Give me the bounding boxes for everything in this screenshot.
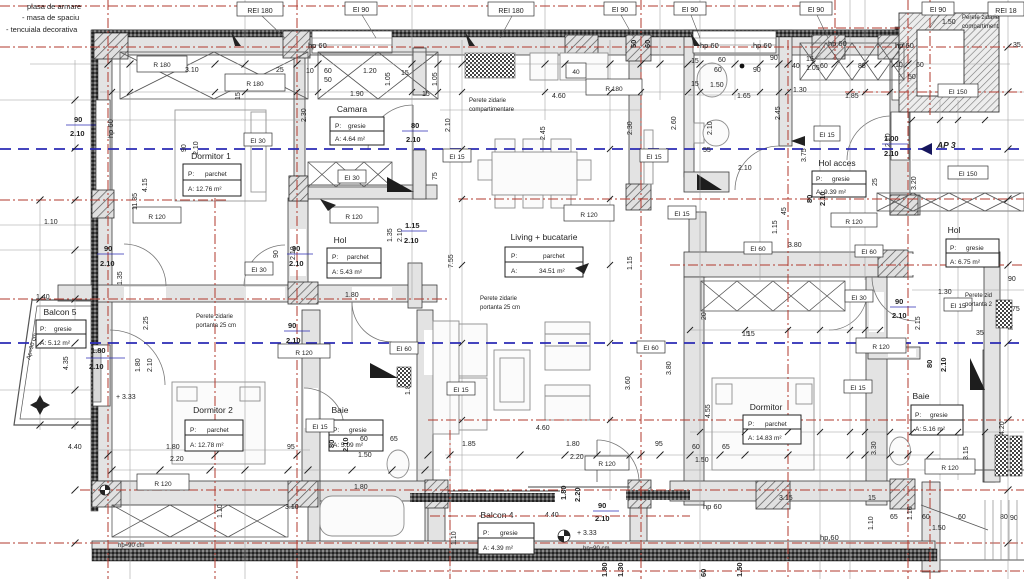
svg-text:50: 50: [324, 77, 332, 84]
svg-text:+ 3.33: + 3.33: [116, 394, 136, 401]
svg-text:60: 60: [714, 67, 722, 74]
svg-text:2.10: 2.10: [818, 191, 827, 206]
svg-text:65: 65: [390, 436, 398, 443]
svg-text:1.80: 1.80: [566, 441, 580, 448]
svg-text:REI 180: REI 180: [498, 8, 523, 15]
svg-text:90: 90: [770, 55, 778, 62]
svg-text:A: 6.75 m²: A: 6.75 m²: [950, 259, 981, 266]
svg-text:3.15: 3.15: [963, 446, 970, 460]
svg-text:2.60: 2.60: [671, 116, 678, 130]
svg-text:1.15: 1.15: [627, 256, 634, 270]
svg-text:65: 65: [890, 514, 898, 521]
svg-text:4.15: 4.15: [142, 178, 149, 192]
svg-text:parchet: parchet: [765, 421, 787, 428]
svg-text:90: 90: [273, 250, 280, 258]
svg-text:R 120: R 120: [872, 344, 890, 351]
svg-text:3.10: 3.10: [285, 504, 299, 511]
svg-text:50: 50: [629, 40, 638, 48]
svg-text:2.30: 2.30: [627, 121, 634, 135]
svg-text:parchet: parchet: [347, 254, 369, 261]
svg-text:P:: P:: [816, 176, 822, 183]
svg-text:EI 15: EI 15: [819, 132, 835, 139]
svg-text:3.80: 3.80: [788, 242, 802, 249]
svg-text:90: 90: [288, 321, 296, 330]
svg-text:90: 90: [1008, 276, 1016, 283]
svg-text:A:: A:: [511, 268, 517, 275]
svg-text:hp 60: hp 60: [106, 119, 115, 138]
svg-text:1.15: 1.15: [772, 220, 779, 234]
svg-text:hp=90 cm: hp=90 cm: [118, 543, 145, 549]
svg-text:EI 90: EI 90: [612, 7, 628, 14]
svg-text:compartimentare: compartimentare: [469, 107, 515, 113]
svg-text:1.35: 1.35: [117, 271, 124, 285]
svg-text:95: 95: [287, 444, 295, 451]
svg-text:4.60: 4.60: [552, 93, 566, 100]
svg-text:2.30: 2.30: [301, 108, 308, 122]
svg-text:4.60: 4.60: [536, 425, 550, 432]
svg-text:EI 15: EI 15: [312, 424, 328, 431]
svg-text:2.25: 2.25: [143, 316, 150, 330]
svg-text:REI 180: REI 180: [247, 8, 272, 15]
svg-text:- masa de spaciu: - masa de spaciu: [22, 13, 79, 22]
svg-text:90: 90: [598, 501, 606, 510]
svg-text:Camara: Camara: [337, 104, 368, 114]
svg-text:2.10: 2.10: [89, 362, 104, 371]
svg-text:1.30: 1.30: [793, 87, 807, 94]
svg-text:90: 90: [292, 244, 300, 253]
svg-text:parchet: parchet: [207, 427, 229, 434]
svg-text:R 120: R 120: [598, 461, 616, 468]
svg-text:20: 20: [701, 312, 708, 320]
svg-text:hp,60: hp,60: [820, 533, 839, 542]
svg-text:R 120: R 120: [941, 465, 959, 472]
svg-text:hp 60: hp 60: [753, 41, 772, 50]
svg-text:Dormitor 2: Dormitor 2: [193, 405, 233, 415]
svg-text:2.45: 2.45: [540, 126, 547, 140]
svg-text:P:: P:: [332, 254, 338, 261]
svg-text:3.80: 3.80: [666, 361, 673, 375]
svg-text:1.80: 1.80: [600, 562, 609, 577]
svg-text:1.90: 1.90: [350, 91, 364, 98]
svg-text:gresie: gresie: [54, 326, 72, 333]
svg-text:4.55: 4.55: [705, 404, 712, 418]
svg-text:2.10: 2.10: [406, 135, 421, 144]
svg-text:Hol: Hol: [334, 235, 347, 245]
svg-text:EI 60: EI 60: [643, 345, 659, 352]
svg-text:2.10: 2.10: [707, 121, 714, 135]
svg-text:parchet: parchet: [205, 171, 227, 178]
svg-text:3.60: 3.60: [625, 376, 632, 390]
svg-text:90: 90: [895, 297, 903, 306]
svg-text:1.05: 1.05: [385, 72, 392, 86]
svg-text:EI 60: EI 60: [750, 246, 766, 253]
svg-text:1.50: 1.50: [735, 562, 744, 577]
svg-text:compartiment: compartiment: [962, 24, 999, 30]
svg-text:1.30: 1.30: [938, 289, 952, 296]
svg-text:EI 15: EI 15: [449, 154, 465, 161]
svg-text:EI 60: EI 60: [396, 346, 412, 353]
svg-text:50: 50: [908, 74, 916, 81]
svg-text:95: 95: [655, 441, 663, 448]
svg-text:2.10: 2.10: [595, 514, 610, 523]
svg-text:1.40: 1.40: [36, 294, 50, 301]
svg-text:EI 90: EI 90: [930, 7, 946, 14]
svg-text:EI 30: EI 30: [251, 267, 267, 274]
svg-text:1.10: 1.10: [868, 516, 875, 530]
svg-text:gresie: gresie: [832, 176, 850, 183]
svg-text:plasa de armare: plasa de armare: [27, 2, 81, 11]
svg-text:40: 40: [792, 63, 800, 70]
svg-text:3.75: 3.75: [801, 148, 808, 162]
svg-text:gresie: gresie: [349, 427, 367, 434]
svg-text:75: 75: [1012, 306, 1020, 313]
svg-text:EI 90: EI 90: [353, 7, 369, 14]
svg-text:P:: P:: [40, 326, 46, 333]
svg-text:EI 90: EI 90: [808, 7, 824, 14]
svg-text:portanta 2: portanta 2: [965, 302, 993, 308]
svg-text:15: 15: [235, 92, 242, 100]
svg-text:4.35: 4.35: [63, 356, 70, 370]
svg-text:hp=90 cm: hp=90 cm: [583, 546, 610, 552]
svg-text:EI 90: EI 90: [682, 7, 698, 14]
svg-text:60: 60: [916, 62, 924, 69]
svg-text:P:: P:: [335, 123, 341, 130]
svg-text:1.50: 1.50: [932, 525, 946, 532]
svg-text:2.10: 2.10: [892, 311, 907, 320]
svg-text:REI 18: REI 18: [995, 8, 1017, 15]
svg-text:2.10: 2.10: [884, 149, 899, 158]
svg-text:Living + bucatarie: Living + bucatarie: [511, 232, 578, 242]
svg-text:R 180: R 180: [153, 62, 171, 69]
svg-text:2.10: 2.10: [397, 228, 404, 242]
svg-text:hp 60: hp 60: [308, 41, 327, 50]
svg-text:60: 60: [360, 436, 368, 443]
svg-text:1.00: 1.00: [884, 134, 899, 143]
svg-text:15: 15: [422, 91, 430, 98]
svg-text:80: 80: [411, 121, 419, 130]
svg-text:Perete zid: Perete zid: [965, 293, 992, 299]
svg-text:15: 15: [401, 70, 409, 77]
svg-text:1.35: 1.35: [387, 228, 394, 242]
svg-text:P:: P:: [915, 412, 921, 419]
svg-text:15: 15: [691, 58, 699, 65]
svg-text:2.45: 2.45: [775, 106, 782, 120]
svg-text:P:: P:: [188, 171, 194, 178]
svg-text:1.85: 1.85: [845, 93, 859, 100]
svg-text:60: 60: [692, 444, 700, 451]
svg-text:1.65: 1.65: [737, 93, 751, 100]
svg-text:EI 15: EI 15: [646, 154, 662, 161]
svg-text:+ 3.33: + 3.33: [577, 530, 597, 537]
svg-text:Hol: Hol: [948, 225, 961, 235]
svg-text:1.10: 1.10: [217, 504, 224, 518]
svg-text:Perete zidarie: Perete zidarie: [480, 296, 518, 302]
svg-text:1.50: 1.50: [358, 452, 372, 459]
svg-text:2.10: 2.10: [289, 259, 304, 268]
svg-text:80: 80: [327, 440, 336, 448]
svg-text:1.80: 1.80: [345, 292, 359, 299]
svg-text:A: 4.39 m²: A: 4.39 m²: [483, 545, 514, 552]
svg-text:Perete zidarie: Perete zidarie: [196, 314, 234, 320]
svg-text:90: 90: [753, 67, 761, 74]
svg-text:60: 60: [324, 68, 332, 75]
svg-text:1.05: 1.05: [806, 65, 820, 72]
svg-text:35: 35: [976, 330, 984, 337]
svg-text:R 180: R 180: [605, 86, 623, 93]
svg-text:AP 3: AP 3: [936, 140, 956, 150]
svg-text:45: 45: [781, 207, 788, 215]
svg-text:1.50: 1.50: [710, 82, 724, 89]
svg-text:35: 35: [1013, 42, 1021, 49]
svg-text:EI 15: EI 15: [453, 387, 469, 394]
svg-text:hp 60: hp 60: [703, 502, 722, 511]
svg-text:1.10: 1.10: [44, 219, 58, 226]
svg-text:1.10: 1.10: [451, 531, 458, 545]
svg-text:EI 30: EI 30: [851, 295, 867, 302]
svg-text:2.20: 2.20: [570, 454, 584, 461]
svg-text:1.05: 1.05: [432, 72, 439, 86]
svg-text:2.10: 2.10: [147, 358, 154, 372]
svg-text:R 120: R 120: [580, 212, 598, 219]
svg-text:R 120: R 120: [345, 214, 363, 221]
svg-text:2.15: 2.15: [915, 316, 922, 330]
svg-text:EI 60: EI 60: [861, 249, 877, 256]
svg-text:1.80: 1.80: [91, 346, 106, 355]
svg-text:60: 60: [718, 57, 726, 64]
svg-text:A: 5.43 m²: A: 5.43 m²: [332, 269, 363, 276]
svg-text:1.50: 1.50: [695, 457, 709, 464]
svg-text:Baie: Baie: [912, 391, 929, 401]
svg-text:EI 15: EI 15: [674, 211, 690, 218]
svg-text:11.35: 11.35: [132, 193, 139, 210]
svg-text:EI 150: EI 150: [959, 171, 978, 178]
svg-text:gresie: gresie: [348, 123, 366, 130]
svg-text:10: 10: [306, 68, 314, 75]
svg-text:90: 90: [104, 244, 112, 253]
svg-text:R 120: R 120: [148, 214, 166, 221]
svg-text:90: 90: [181, 144, 188, 152]
svg-text:1.80: 1.80: [166, 444, 180, 451]
svg-text:90: 90: [74, 115, 82, 124]
svg-text:A: 4.64 m²: A: 4.64 m²: [335, 136, 366, 143]
svg-text:Baie: Baie: [331, 405, 348, 415]
svg-text:2.10: 2.10: [445, 118, 452, 132]
svg-text:P:: P:: [511, 253, 517, 260]
svg-text:hp 60: hp 60: [895, 41, 914, 50]
svg-text:1.10: 1.10: [907, 506, 914, 520]
svg-text:hp 60: hp 60: [700, 41, 719, 50]
svg-text:EI 15: EI 15: [850, 385, 866, 392]
svg-text:2.20: 2.20: [170, 456, 184, 463]
svg-text:60: 60: [820, 63, 828, 70]
svg-text:Balcon 5: Balcon 5: [43, 307, 76, 317]
svg-text:Hol acces: Hol acces: [818, 158, 855, 168]
svg-text:1.20: 1.20: [363, 68, 377, 75]
svg-text:75: 75: [432, 172, 439, 180]
svg-text:1.80: 1.80: [135, 358, 142, 372]
svg-text:25: 25: [872, 178, 879, 186]
svg-text:25: 25: [276, 67, 284, 74]
svg-text:4.40: 4.40: [68, 444, 82, 451]
svg-text:P:: P:: [748, 421, 754, 428]
svg-text:15: 15: [691, 81, 699, 88]
svg-text:R 120: R 120: [295, 350, 313, 357]
svg-text:1.15: 1.15: [405, 221, 420, 230]
svg-text:2.10: 2.10: [193, 141, 200, 155]
svg-text:Perete zidarie: Perete zidarie: [962, 15, 1000, 21]
svg-text:A: 12.78 m²: A: 12.78 m²: [190, 442, 224, 449]
svg-text:A: 14.83 m²: A: 14.83 m²: [748, 435, 782, 442]
svg-text:15: 15: [868, 495, 876, 502]
svg-text:1.80: 1.80: [354, 484, 368, 491]
svg-text:A: 5.16 m²: A: 5.16 m²: [915, 426, 946, 433]
svg-text:3.15: 3.15: [779, 495, 793, 502]
svg-text:1.50: 1.50: [942, 19, 956, 26]
svg-text:80: 80: [925, 360, 934, 368]
svg-text:hp 60: hp 60: [828, 39, 847, 48]
svg-text:- tencuiala decorativa: - tencuiala decorativa: [6, 25, 78, 34]
svg-text:7.55: 7.55: [448, 254, 455, 268]
svg-text:60: 60: [699, 569, 708, 577]
svg-text:1.30: 1.30: [616, 562, 625, 577]
svg-text:2.10: 2.10: [738, 165, 752, 172]
svg-text:P:: P:: [950, 245, 956, 252]
svg-text:EI 150: EI 150: [949, 89, 968, 96]
svg-text:3.30: 3.30: [871, 441, 878, 455]
svg-text:60: 60: [643, 40, 652, 48]
svg-text:2.20: 2.20: [573, 487, 582, 502]
svg-text:EI 30: EI 30: [250, 138, 266, 145]
svg-text:60: 60: [922, 514, 930, 521]
svg-text:parchet: parchet: [543, 253, 565, 260]
svg-text:3.10: 3.10: [185, 67, 199, 74]
svg-text:Balcon 4: Balcon 4: [480, 510, 513, 520]
svg-text:2.10: 2.10: [286, 336, 301, 345]
svg-text:80: 80: [805, 195, 814, 203]
svg-text:portanta 25 cm: portanta 25 cm: [480, 305, 520, 311]
svg-text:1.85: 1.85: [462, 441, 476, 448]
svg-text:15: 15: [806, 56, 814, 63]
svg-text:65: 65: [722, 444, 730, 451]
svg-text:Perete zidarie: Perete zidarie: [469, 98, 507, 104]
svg-text:40: 40: [572, 69, 580, 76]
svg-text:EI 15: EI 15: [950, 303, 966, 310]
svg-text:gresie: gresie: [500, 530, 518, 537]
svg-text:P:: P:: [190, 427, 196, 434]
svg-text:P:: P:: [483, 530, 489, 537]
svg-text:2.10: 2.10: [100, 259, 115, 268]
svg-text:A: 5.12 m²: A: 5.12 m²: [40, 340, 71, 347]
svg-text:55: 55: [703, 147, 711, 154]
svg-text:34.51 m²: 34.51 m²: [539, 268, 565, 275]
svg-text:2.10: 2.10: [939, 357, 948, 372]
svg-text:A: 12.76 m²: A: 12.76 m²: [188, 186, 222, 193]
svg-text:EI 30: EI 30: [344, 175, 360, 182]
svg-text:1.80: 1.80: [559, 485, 568, 500]
svg-text:2.10: 2.10: [404, 236, 419, 245]
svg-text:2.10: 2.10: [70, 129, 85, 138]
svg-text:gresie: gresie: [966, 245, 984, 252]
svg-text:2.10: 2.10: [341, 437, 350, 452]
svg-text:portanta 25 cm: portanta 25 cm: [196, 323, 236, 329]
svg-text:3.20: 3.20: [911, 176, 918, 190]
svg-text:gresie: gresie: [930, 412, 948, 419]
svg-text:Dormitor: Dormitor: [750, 402, 783, 412]
svg-text:R 180: R 180: [246, 81, 264, 88]
svg-text:R 120: R 120: [154, 481, 172, 488]
svg-text:R 120: R 120: [845, 219, 863, 226]
